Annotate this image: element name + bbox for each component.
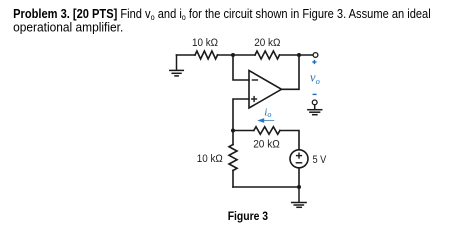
svg-text:5 V: 5 V [313,154,327,166]
source plus sign [297,153,302,158]
bottom rail wire [233,186,299,188]
wire top-left (ground to R1) [177,54,196,56]
source minus sign [296,162,301,164]
wire node A down to inverting input [233,55,249,80]
wire node C to R4 [233,130,254,132]
blue minus sign (output) [313,93,317,95]
op-amp U1 [249,71,282,109]
svg-text:io: io [264,106,271,119]
svg-text:10 kΩ: 10 kΩ [197,153,223,165]
blue plus sign (output) [312,60,316,64]
node A junction dot [231,53,235,57]
op-amp minus sign [252,79,257,81]
wire R4 to source top [280,131,299,150]
svg-text:vo: vo [310,71,320,86]
node C junction dot [231,129,235,133]
wire R2 to node B and output terminal [280,54,314,56]
svg-text:20 kΩ: 20 kΩ [253,139,280,151]
svg-text:10 kΩ: 10 kΩ [192,37,218,49]
resistor R2 20k top [255,51,280,59]
wire source bottom to node D [298,168,300,187]
wire node C to R3 [232,131,234,145]
terminal circle vo- [312,100,317,105]
voltage source V1 5V [290,150,308,168]
terminal circle vo+ [313,53,318,58]
resistor R4 20k bottom [254,127,280,135]
svg-text:Figure 3: Figure 3 [228,211,268,223]
wire R3 to bottom rail [232,171,234,188]
op-amp plus sign [252,97,257,102]
ground (right terminal) [308,105,322,115]
wire R1 to node A [218,54,256,56]
wire non-inverting input to node C [233,99,249,131]
node B junction dot [297,53,301,57]
resistor R1 10k top [195,51,218,59]
svg-text:operational amplifier.: operational amplifier. [13,20,123,35]
node D junction dot [297,185,301,189]
current arrow io [257,118,274,123]
wire op-amp output to node B [282,55,300,89]
resistor R3 10k left vertical [229,145,237,171]
ground (bottom) [292,187,306,207]
svg-text:20 kΩ: 20 kΩ [254,37,280,49]
ground (top-left) [170,55,184,76]
